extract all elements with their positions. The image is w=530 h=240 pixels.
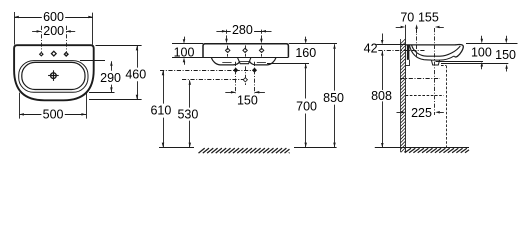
svg-text:200: 200 [43,24,64,38]
svg-text:150: 150 [237,94,258,108]
svg-text:100: 100 [174,45,195,59]
svg-text:290: 290 [100,71,121,85]
svg-text:600: 600 [43,10,64,24]
svg-text:808: 808 [371,89,392,103]
svg-text:280: 280 [232,23,253,37]
svg-text:700: 700 [296,99,317,113]
svg-text:160: 160 [295,46,316,60]
svg-text:42: 42 [364,42,378,56]
svg-text:150: 150 [495,48,516,62]
svg-text:460: 460 [125,68,146,82]
svg-text:70: 70 [400,10,414,24]
svg-text:100: 100 [471,45,492,59]
svg-text:850: 850 [323,91,344,105]
svg-text:530: 530 [177,107,198,121]
svg-text:500: 500 [43,108,64,122]
svg-text:610: 610 [150,104,171,118]
svg-text:155: 155 [418,10,439,24]
svg-text:225: 225 [411,106,432,120]
